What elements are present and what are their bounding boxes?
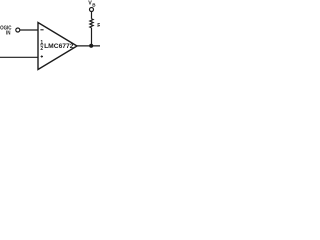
svg-text:2: 2 [40, 46, 43, 52]
wire VB to resistor [91, 12, 93, 19]
pin minus [40, 29, 43, 31]
wire inverting input [20, 29, 38, 31]
svg-text:R: R [97, 23, 100, 29]
label VB [88, 0, 96, 7]
op-amp U1 1/2 LMC6772 [38, 23, 77, 70]
wire resistor to output node [91, 28, 93, 46]
terminal VB (open circle) [90, 8, 94, 12]
svg-text:IN: IN [6, 30, 11, 37]
value 1/2 [40, 40, 44, 52]
wire non-inverting input [0, 56, 38, 58]
terminal LOGIC IN (open circle) [16, 28, 20, 32]
wire output [77, 45, 100, 47]
node output junction [89, 44, 93, 48]
svg-text:LMC6772: LMC6772 [44, 43, 74, 50]
pin plus [41, 55, 43, 57]
label LOGIC IN [0, 25, 12, 37]
resistor R [90, 19, 93, 28]
